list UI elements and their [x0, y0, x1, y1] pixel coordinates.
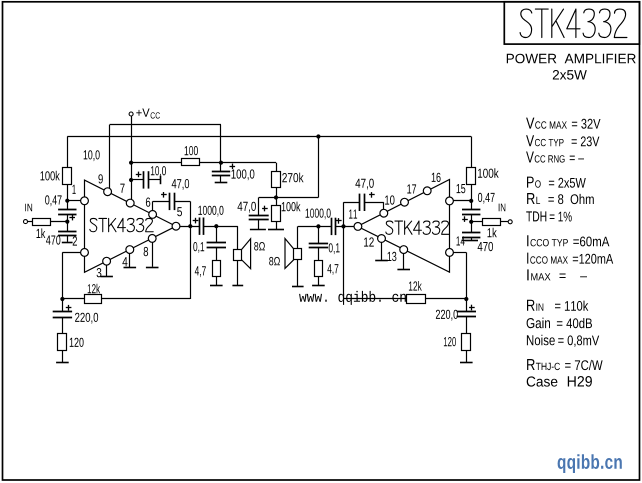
spec Icco typ	[527, 235, 609, 246]
pin 11 circle	[354, 223, 362, 231]
ground bar 4,7 (left)	[210, 285, 223, 287]
plus sign 0,47 (right)	[462, 219, 468, 221]
label 8 Ohm (right)	[269, 257, 280, 266]
label 8 Ohm (left)	[254, 242, 265, 251]
pin 9 label	[98, 174, 102, 183]
wire pin 5 output	[180, 226, 200, 228]
wire pin 9 riser	[109, 125, 111, 189]
wire 100k bias to ground	[276, 221, 278, 229]
junction pin15 node	[469, 199, 473, 203]
wire down to 0,1 (left)	[216, 226, 218, 243]
label 100k (right)	[478, 168, 499, 178]
label 120 (right)	[444, 337, 456, 346]
pin 11 label	[349, 210, 357, 219]
plus sign 1000,0 (left)	[193, 220, 199, 222]
watermark www.qqibb.cn (center)	[299, 291, 406, 305]
capacitor 47,0 (left bootstrap)	[169, 193, 171, 210]
capacitor 100,0	[212, 171, 230, 173]
resistor 1k (left)	[33, 219, 51, 226]
speaker (right) cone	[285, 239, 294, 269]
subtitle POWER AMPLIFIER	[507, 54, 636, 64]
wire 1k to IN (right)	[500, 221, 508, 223]
plus sign 47,0 (bias)	[262, 208, 268, 210]
wire 12k left lead	[62, 298, 84, 300]
pin 6 circle	[149, 211, 157, 219]
pin 15 circle	[446, 197, 454, 205]
label 220,0 (left)	[75, 313, 98, 324]
resistor 4,7 (right)	[315, 261, 323, 277]
spec Icco max	[527, 253, 613, 264]
pin 4 circle	[126, 246, 134, 254]
label 12k (right)	[409, 281, 422, 291]
wire 100k bottom to pin1 node	[67, 185, 69, 210]
pin 1 label	[73, 185, 76, 194]
resistor 1k (right)	[483, 219, 501, 226]
spec TDH	[526, 211, 572, 221]
wire pin 14 lead	[453, 252, 466, 254]
resistor 100k (left)	[63, 168, 72, 185]
node IN terminal (left)	[24, 220, 28, 224]
capacitor 0,47 (left)	[58, 209, 76, 211]
label STK4332 (left IC)	[90, 218, 153, 231]
capacitor 47,0 (bias)	[249, 215, 269, 217]
label +VCC	[136, 109, 149, 117]
capacitor 47,0 (right bootstrap)	[359, 194, 361, 211]
pin 7 label	[120, 184, 124, 193]
ground stub pin 8	[152, 242, 154, 266]
wire 4,7 to ground (right)	[318, 277, 320, 286]
title text STK4332	[520, 9, 627, 37]
ground stub pin 13	[403, 254, 405, 270]
label 100k (bias)	[282, 202, 301, 212]
label 47,0 (left)	[172, 179, 189, 190]
op-amp U1 STK4332 (left) body	[85, 180, 177, 272]
wire pin2 drop	[62, 252, 64, 311]
capacitor 10,0 (VCC filter)	[143, 171, 145, 188]
wire pin6 to 47,0	[153, 201, 170, 203]
plus sign 100,0	[230, 166, 236, 168]
wire 47,0 to pin10 riser	[364, 202, 383, 204]
wire 1000,0 to speaker node (right)	[298, 226, 332, 228]
wire speaker drop (right)	[297, 226, 299, 249]
wire bias rail drop (right)	[471, 137, 473, 168]
wire 0,1 to 4,7 (right)	[318, 248, 320, 261]
capacitor 220,0 (left)	[53, 311, 72, 313]
wire 120 to ground (left)	[62, 350, 64, 362]
pin 12 circle	[378, 235, 386, 243]
wire 47,0 left lead (right)	[344, 202, 360, 204]
pin 9 circle	[104, 188, 112, 196]
wire bias node left	[259, 197, 319, 199]
label 470 (right)	[478, 242, 493, 251]
pin 3 label	[97, 268, 102, 277]
pin 14 label	[457, 236, 465, 245]
label 470 (left)	[46, 235, 60, 244]
label 1000,0 (left)	[198, 206, 223, 217]
spec Imax	[527, 269, 587, 280]
resistor 100	[182, 159, 200, 166]
label 100	[185, 146, 198, 155]
wire 10,0 right lead	[149, 179, 161, 181]
wire top rail y124	[110, 124, 221, 126]
wire VCC vertical to pin 7	[131, 116, 133, 199]
wire pin1 node to pin 1	[67, 200, 80, 202]
label STK4332 (right IC)	[386, 221, 449, 234]
plus sign 10,0 (cap)	[136, 174, 142, 176]
wire 1000,0 to speaker node	[203, 226, 237, 228]
wire 1k to junction	[51, 221, 68, 223]
resistor 100k (bias)	[272, 206, 281, 222]
pin 8 label	[144, 247, 149, 256]
speaker (right) box	[294, 249, 302, 260]
label 270k	[282, 173, 303, 183]
resistor 120 (left)	[58, 334, 67, 351]
capacitor 0,47 (right)	[462, 209, 480, 211]
wire 4,7 to ground (left)	[216, 277, 218, 286]
label 100k (left)	[41, 171, 60, 181]
wire 47,0 bias to ground	[258, 220, 260, 230]
pin 14 circle	[446, 249, 454, 257]
ground bar pin 8	[146, 267, 159, 269]
label 47,0 (right)	[355, 179, 373, 190]
wire speaker to ground (left)	[237, 260, 239, 285]
capacitor 470 (right)	[462, 232, 480, 234]
ground bar pin 13	[397, 269, 410, 271]
pin 15 label	[457, 184, 466, 193]
label 1000,0 (right)	[306, 209, 331, 220]
label 220,0 (right)	[436, 310, 458, 321]
wire 12k to feedback riser	[101, 298, 190, 300]
label 0,1 (left)	[193, 242, 204, 253]
ground stub pin 12	[381, 242, 383, 260]
junction VCC / R100	[129, 161, 133, 165]
wire 0,47 to 470	[67, 214, 69, 231]
ground bar under 100,0	[215, 182, 228, 184]
capacitor 220,0 (right)	[457, 311, 476, 313]
junction input node (right)	[469, 220, 473, 224]
plus sign 47,0 (right)	[369, 194, 375, 196]
ground bar speaker (right)	[292, 286, 304, 288]
label 0,1 (right)	[329, 243, 340, 254]
wire 12k to feedback riser (right)	[344, 298, 408, 300]
label 1k (left)	[37, 228, 46, 238]
bar terminal 10,0	[160, 176, 162, 185]
label 4,7 (left)	[195, 266, 206, 277]
spec Noise	[527, 335, 599, 347]
wire pin 2 lead	[62, 252, 80, 254]
junction bias divider node	[274, 195, 278, 199]
junction speaker node (left)	[214, 224, 218, 228]
wire VCC to 10,0	[131, 179, 143, 181]
speaker (left) box	[234, 250, 242, 261]
ground bar 470 (right)	[462, 240, 478, 242]
pin 12 label	[364, 237, 374, 246]
junction feedback node (left)	[60, 297, 64, 301]
pin 17 label	[407, 184, 416, 193]
spec Rl	[527, 193, 594, 204]
plus sign 47,0 (left)	[161, 194, 167, 196]
junction VCC / C10,0	[129, 178, 133, 182]
spec Gain	[527, 318, 592, 329]
spec Vcc typ	[526, 135, 599, 146]
capacitor 1000,0 (right)	[331, 218, 333, 235]
pin 6 label	[146, 198, 150, 207]
wire 220,0 to 120 (left)	[62, 317, 64, 333]
wire IN to R 1k	[28, 221, 33, 223]
spec Vcc max	[526, 118, 600, 129]
wire pin15 node to pin 15	[453, 200, 471, 202]
ground bar under 470 (left)	[62, 242, 73, 244]
node +VCC terminal	[129, 112, 133, 116]
ground bar 120 (right)	[460, 362, 473, 364]
label 10,0 (cap)	[151, 166, 166, 177]
wire 470 to bar (right)	[471, 237, 473, 241]
op-amp U2 STK4332 (right) body	[358, 180, 450, 273]
ground stub pin 4	[129, 254, 131, 268]
wire pin14 drop	[466, 252, 468, 312]
wire 120 to ground (right)	[466, 351, 468, 363]
ground stub pin 3	[106, 265, 108, 277]
junction pin1 node	[65, 199, 69, 203]
wire down to 0,1 (right)	[318, 226, 320, 243]
wire bend down to 270k	[276, 163, 278, 172]
pin 16 label	[432, 173, 441, 182]
junction output node (left)	[188, 224, 192, 228]
wire pin 6 riser	[152, 201, 154, 210]
spec Rthj-c	[527, 359, 603, 370]
label 0,47 (right)	[478, 193, 495, 204]
wire junction to 1k (right)	[471, 221, 482, 223]
wire pin 10 riser	[383, 202, 385, 209]
plus sign 0,47 (left)	[69, 217, 75, 219]
pin 17 circle	[401, 198, 409, 206]
wire 47,0 to feedback node	[174, 201, 190, 203]
wire 470 to ground bar	[67, 235, 69, 242]
wire pin 11 output	[336, 226, 354, 228]
pin 10 label	[385, 195, 394, 204]
wire 220,0 to 120 (right)	[466, 317, 468, 334]
pin 1 circle	[81, 197, 89, 205]
junction output node (right)	[341, 224, 345, 228]
label 47,0 (bias)	[238, 202, 256, 213]
node IN terminal (right)	[508, 220, 512, 224]
resistor 100k (right)	[467, 168, 476, 185]
junction bias tap	[316, 134, 320, 138]
ground bar pin 12	[375, 260, 388, 262]
wire speaker drop (left)	[237, 226, 239, 249]
watermark qqibb.cn (bottom right, blue)	[558, 454, 622, 473]
ground bar 100k bias	[268, 229, 284, 231]
wire 100k top to bias rail	[67, 137, 69, 168]
spec Case H29	[527, 376, 592, 387]
wire bias riser	[318, 137, 320, 198]
wire bias rail y136	[67, 136, 471, 138]
wire feedback riser (right)	[343, 202, 345, 298]
resistor 12k (left)	[85, 295, 102, 304]
capacitor 470 (left)	[58, 231, 76, 233]
junction speaker node (right)	[316, 224, 320, 228]
resistor 270k	[272, 172, 281, 188]
wire 0,47 to 470 (right)	[471, 214, 473, 232]
ground bar pin 3	[100, 276, 113, 278]
plus sign 1000,0 (right)	[336, 220, 342, 222]
pin 7 circle	[126, 199, 134, 207]
title box	[504, 2, 639, 44]
pin 13 label	[388, 252, 397, 261]
wire 100k to pin15 node	[471, 185, 473, 210]
pin 2 label	[73, 236, 77, 245]
pin 10 circle	[380, 209, 388, 217]
wire 0,1 to 4,7 (left)	[216, 247, 218, 260]
label IN (right)	[499, 204, 506, 212]
junction feedback node (right)	[464, 297, 468, 301]
label 1k (right)	[488, 228, 497, 238]
pin 5 circle	[172, 222, 180, 230]
label 120 (left)	[70, 338, 84, 347]
spec Rin	[527, 300, 588, 311]
ground bar 47,0 bias	[250, 229, 266, 231]
pin 3 circle	[103, 257, 111, 265]
label 0,47 (left)	[45, 195, 62, 206]
wire top rail drop x221	[220, 125, 222, 172]
subtitle 2x5W	[553, 70, 587, 80]
wire 100,0 to ground	[220, 176, 222, 182]
resistor 4,7 (left)	[213, 261, 221, 277]
ground bar pin 4	[124, 267, 137, 269]
plus sign 220,0 (left)	[66, 307, 72, 309]
wire feedback riser (left)	[190, 201, 192, 299]
capacitor 1000,0 (left)	[199, 218, 201, 235]
speaker (left) cone	[242, 239, 251, 269]
ground bar 120 (left)	[56, 362, 69, 364]
wire VCC to R100	[131, 162, 182, 164]
spec Vcc rng	[526, 152, 584, 163]
pin 5 label	[177, 207, 182, 216]
wire down to 47,0 mid	[258, 198, 260, 216]
pin 2 circle	[81, 249, 89, 257]
wire speaker to ground (right)	[297, 260, 299, 286]
ground bar 4,7 (right)	[312, 285, 325, 287]
pin 13 circle	[400, 246, 408, 254]
resistor 120 (right)	[462, 334, 471, 351]
label IN (left)	[25, 204, 32, 212]
junction input node (left)	[65, 220, 69, 224]
label 12k (left)	[88, 284, 100, 294]
capacitor 0,1 (left)	[207, 242, 226, 244]
capacitor 0,1 (right)	[309, 243, 328, 245]
resistor 12k (right)	[407, 295, 426, 304]
label 100,0	[232, 169, 255, 180]
ground bar speaker (left)	[232, 285, 243, 287]
pin 16 circle	[423, 187, 431, 195]
junction filtered VCC node	[219, 161, 223, 165]
plus sign 220,0 (right)	[469, 307, 475, 309]
pin 4 label	[122, 257, 127, 266]
wire 12k right lead	[425, 298, 466, 300]
label 4,7 (right)	[327, 264, 338, 275]
wire R100 to 270k bend	[200, 162, 276, 164]
pin 8 circle	[148, 235, 156, 243]
spec Po	[527, 177, 586, 188]
wire 270k to 100k mid	[276, 188, 278, 205]
label 10,0 (upper left)	[84, 150, 100, 161]
